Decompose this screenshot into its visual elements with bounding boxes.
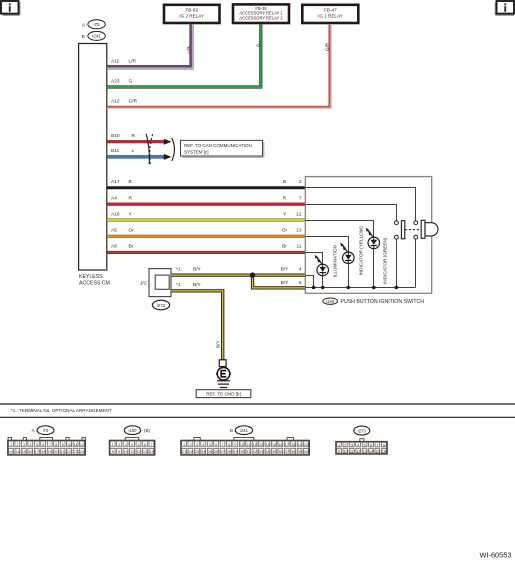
svg-text:L/R: L/R: [186, 46, 191, 54]
svg-text:i241: i241: [240, 428, 249, 433]
svg-text:2: 2: [189, 442, 191, 447]
svg-text:15: 15: [22, 449, 26, 454]
wire A8 Br to switch pin 11: [107, 244, 305, 253]
wire pin4 inner: [305, 276, 313, 288]
svg-text:17: 17: [35, 449, 39, 454]
svg-text:11: 11: [350, 449, 354, 454]
svg-text:19: 19: [48, 449, 52, 454]
svg-text:9: 9: [118, 449, 120, 454]
svg-text:12: 12: [253, 442, 257, 447]
svg-text:R: R: [283, 196, 287, 202]
push button ignition switch box i150: [305, 177, 431, 294]
svg-text:B/Y: B/Y: [281, 280, 290, 286]
wire A18 Y to switch pin 12: [107, 211, 305, 220]
wire A23 G to accessory relay: [107, 24, 261, 87]
svg-text:REF. TO CAN COMMUNICATION: REF. TO CAN COMMUNICATION: [184, 143, 252, 148]
ground strokes: [217, 380, 230, 382]
svg-text:IG 2 RELAY: IG 2 RELAY: [179, 14, 204, 19]
svg-text:R: R: [129, 196, 133, 202]
svg-text:8: 8: [383, 442, 385, 447]
svg-text:A12: A12: [111, 99, 120, 105]
svg-text:G: G: [129, 78, 133, 84]
svg-text:6: 6: [370, 442, 372, 447]
push button symbol: [421, 220, 438, 238]
junction dots on bus: [312, 286, 316, 290]
svg-text:A :: A :: [32, 428, 37, 433]
svg-text:B/Y: B/Y: [281, 266, 290, 272]
svg-text:5: 5: [209, 442, 211, 447]
svg-text:4: 4: [299, 266, 302, 272]
connector label i150 (B) (bottom): [124, 426, 150, 435]
svg-text:REF. TO GND [b]: REF. TO GND [b]: [206, 392, 241, 397]
svg-text:B/Y: B/Y: [193, 266, 202, 272]
svg-text:35: 35: [272, 449, 276, 454]
svg-text:B/Y: B/Y: [193, 282, 202, 288]
wire LED green cathode: [373, 249, 375, 288]
connector label A: i75 (bottom): [32, 426, 54, 435]
GND reference box: [196, 390, 251, 398]
svg-text:ILLUMINATION: ILLUMINATION: [332, 245, 337, 277]
svg-text:31: 31: [246, 449, 250, 454]
svg-text:L/R: L/R: [129, 59, 137, 65]
svg-text:5: 5: [299, 280, 302, 286]
wire pin2 inner: [305, 188, 415, 221]
connector B i241 pin grid: [181, 438, 309, 456]
svg-text:8: 8: [228, 442, 230, 447]
svg-text:KEYLESS: KEYLESS: [79, 274, 103, 280]
svg-text:B: B: [129, 179, 132, 185]
svg-text:6: 6: [42, 442, 44, 447]
svg-text:Br: Br: [129, 244, 134, 250]
svg-text:A18: A18: [111, 211, 120, 217]
wire B/Y junction to switch pin 5: [253, 275, 306, 288]
svg-text:15: 15: [375, 449, 379, 454]
svg-text:1: 1: [112, 442, 114, 447]
svg-text:9: 9: [338, 449, 340, 454]
svg-text:13: 13: [363, 449, 367, 454]
svg-text:17: 17: [285, 442, 289, 447]
svg-text:G/R: G/R: [324, 42, 329, 51]
svg-text:B :: B :: [230, 428, 236, 433]
relay FB-47 (IG 1 RELAY): [302, 5, 358, 23]
svg-text:Or: Or: [129, 228, 135, 234]
divider line lower: [0, 416, 515, 418]
svg-text:2: 2: [16, 442, 18, 447]
wire A5 Or to switch pin 13: [107, 228, 305, 237]
connector label A: i75: [82, 20, 105, 29]
svg-text:FB-62: FB-62: [185, 7, 198, 12]
svg-text:*1: *1: [176, 266, 181, 272]
svg-text:3: 3: [196, 442, 198, 447]
svg-text:21: 21: [61, 449, 65, 454]
wire B/Y J/C to ground: [171, 282, 223, 361]
svg-text:B/Y: B/Y: [215, 341, 220, 348]
svg-text:18: 18: [41, 449, 45, 454]
junction dot B/Y: [250, 272, 255, 277]
svg-text:*1: *1: [176, 282, 181, 288]
svg-text:29: 29: [233, 449, 237, 454]
svg-text:11: 11: [74, 442, 78, 447]
svg-text:i241: i241: [92, 34, 101, 39]
svg-text:9: 9: [234, 442, 236, 447]
svg-text:9: 9: [62, 442, 64, 447]
wire B10 R CAN high: [107, 133, 164, 142]
svg-text:WI-60553: WI-60553: [479, 551, 511, 560]
svg-text:7: 7: [376, 442, 378, 447]
connector label i273 (bottom): [354, 426, 370, 435]
junction connector J/C: [140, 269, 171, 297]
svg-text:11: 11: [130, 449, 134, 454]
svg-text:8: 8: [112, 449, 114, 454]
svg-text:5: 5: [137, 442, 139, 447]
svg-text:13: 13: [259, 442, 263, 447]
ground E circle: [216, 367, 231, 380]
info icon top-left: [1, 1, 20, 15]
svg-text:FB-47: FB-47: [324, 7, 337, 12]
svg-text:B10: B10: [111, 133, 120, 139]
svg-text:32: 32: [253, 449, 257, 454]
wire pin12 inner: [305, 221, 373, 238]
ground connector square: [219, 360, 226, 367]
svg-text:19: 19: [298, 442, 302, 447]
svg-text:L: L: [132, 148, 135, 154]
svg-text:26: 26: [214, 449, 218, 454]
svg-text:13: 13: [143, 449, 147, 454]
svg-text:5: 5: [36, 442, 38, 447]
LED indicator yellow: [340, 243, 354, 264]
wire switch contact lower-left: [396, 239, 398, 287]
svg-text:7: 7: [299, 196, 302, 202]
svg-text:2: 2: [299, 179, 302, 185]
svg-text:A8: A8: [111, 244, 117, 250]
svg-text:Or: Or: [282, 228, 288, 234]
svg-text:16: 16: [382, 449, 386, 454]
wire pin7 inner: [305, 205, 396, 221]
svg-text:IG 1 RELAY: IG 1 RELAY: [318, 14, 343, 19]
svg-text:5: 5: [364, 442, 366, 447]
svg-text:i150: i150: [129, 428, 138, 433]
svg-text:(B): (B): [144, 428, 151, 433]
svg-text:3: 3: [23, 442, 25, 447]
svg-text:39: 39: [298, 449, 302, 454]
svg-text:36: 36: [278, 449, 282, 454]
svg-text:16: 16: [28, 449, 32, 454]
svg-text:A11: A11: [111, 59, 120, 65]
svg-text:3: 3: [351, 442, 353, 447]
label i150 PUSH BUTTON IGNITION SWITCH: [323, 298, 424, 305]
svg-text:23: 23: [195, 449, 199, 454]
relay FB-35 (ACCESSORY RELAY 1/2): [233, 4, 289, 23]
svg-text:1: 1: [10, 442, 12, 447]
connector label B: i241: [82, 31, 106, 40]
svg-text:i75: i75: [43, 428, 49, 433]
actuator dashed link: [405, 229, 421, 231]
relay FB-62 (IG 2 RELAY): [164, 5, 220, 23]
svg-text:7: 7: [150, 442, 152, 447]
svg-text:16: 16: [278, 442, 282, 447]
wire pin11 inner: [305, 253, 322, 265]
svg-text:27: 27: [220, 449, 224, 454]
svg-text:Br: Br: [282, 244, 287, 250]
wire LED illumination cathode: [322, 276, 324, 288]
svg-text:2: 2: [344, 442, 346, 447]
CAN reference box: [181, 140, 264, 157]
svg-text:6: 6: [215, 442, 217, 447]
wire B11 L CAN low: [107, 148, 164, 157]
svg-text:2: 2: [118, 442, 120, 447]
svg-text:INDICATOR (GREEN): INDICATOR (GREEN): [382, 237, 387, 284]
svg-text:13: 13: [9, 449, 13, 454]
divider line upper: [0, 403, 515, 405]
svg-text:15: 15: [272, 442, 276, 447]
svg-text:*1 : TERMINAL No. OPTIONAL ARR: *1 : TERMINAL No. OPTIONAL ARRANGEMENT: [11, 408, 112, 413]
svg-text:7: 7: [49, 442, 51, 447]
wire B/Y J/C to switch pin 4: [171, 266, 305, 275]
wire A12 G/R to IG1 relay: [107, 24, 331, 108]
svg-text:A23: A23: [111, 78, 120, 84]
svg-text:11: 11: [246, 442, 250, 447]
connector label i273: [152, 300, 169, 310]
svg-text:i150: i150: [326, 299, 335, 304]
svg-text:A17: A17: [111, 179, 120, 185]
svg-text:12: 12: [136, 449, 140, 454]
svg-text:PUSH BUTTON IGNITION SWITCH: PUSH BUTTON IGNITION SWITCH: [341, 299, 425, 305]
svg-text:A5: A5: [111, 228, 117, 234]
svg-text:37: 37: [285, 449, 289, 454]
connector i150 pin grid: [110, 438, 155, 456]
svg-text:22: 22: [188, 449, 192, 454]
connector label B: i241 (bottom): [230, 426, 253, 435]
info icon top-right: [495, 1, 514, 15]
svg-text:22: 22: [67, 449, 71, 454]
svg-text:11: 11: [297, 244, 302, 250]
connector A i75 pin grid: [8, 438, 86, 456]
svg-text:25: 25: [208, 449, 212, 454]
svg-text:33: 33: [259, 449, 263, 454]
svg-text:INDICATOR (YELLOW): INDICATOR (YELLOW): [358, 226, 363, 276]
svg-text:ACCESS CM: ACCESS CM: [79, 280, 110, 286]
svg-text:7: 7: [222, 442, 224, 447]
wire switch contact lower-right: [415, 239, 417, 287]
LED indicator green: [366, 228, 380, 249]
svg-text:SYSTEM [c]: SYSTEM [c]: [184, 149, 209, 154]
svg-text:ACCESSORY RELAY 2: ACCESSORY RELAY 2: [239, 15, 283, 20]
svg-text:G/R: G/R: [129, 99, 138, 105]
twisted pair symbol: [146, 134, 152, 165]
keyless access CM: [79, 44, 110, 287]
svg-text:B :: B :: [82, 34, 88, 40]
svg-text:28: 28: [227, 449, 231, 454]
svg-text:12: 12: [80, 442, 84, 447]
svg-text:8: 8: [55, 442, 57, 447]
svg-text:B: B: [283, 179, 286, 185]
svg-text:J/C: J/C: [140, 281, 148, 287]
switch actuator bar: [401, 221, 404, 239]
svg-text:i75: i75: [94, 22, 101, 27]
wire A11 L/R to IG2 relay: [107, 24, 193, 68]
arrow B11: [164, 154, 172, 160]
svg-text:1: 1: [183, 442, 185, 447]
svg-text:R: R: [132, 133, 136, 139]
CAN bundle arc: [172, 138, 175, 161]
wire A4 R to switch pin 7: [107, 196, 305, 205]
svg-text:G: G: [255, 43, 260, 47]
svg-text:23: 23: [73, 449, 77, 454]
svg-text:A4: A4: [111, 196, 117, 202]
wire LED yellow cathode: [348, 264, 350, 288]
wire A17 B to switch pin 2: [107, 179, 305, 188]
svg-text:B11: B11: [111, 148, 120, 154]
LED illumination: [315, 255, 329, 276]
svg-text:1: 1: [338, 442, 340, 447]
bus wire bottom: [305, 287, 415, 289]
svg-text:21: 21: [182, 449, 186, 454]
connector i273 pin grid: [336, 439, 387, 454]
svg-text:i273: i273: [358, 428, 367, 433]
switch contact circles: [395, 221, 399, 225]
svg-text:38: 38: [291, 449, 295, 454]
wire pin13 inner: [305, 237, 348, 253]
svg-text:12: 12: [296, 211, 302, 217]
svg-text:13: 13: [296, 228, 302, 234]
svg-text:18: 18: [291, 442, 295, 447]
svg-text:i273: i273: [157, 303, 166, 308]
svg-text:6: 6: [144, 442, 146, 447]
svg-text:12: 12: [356, 449, 360, 454]
svg-text:3: 3: [125, 442, 127, 447]
svg-text:A :: A :: [82, 22, 88, 28]
arrow B10: [164, 139, 172, 145]
